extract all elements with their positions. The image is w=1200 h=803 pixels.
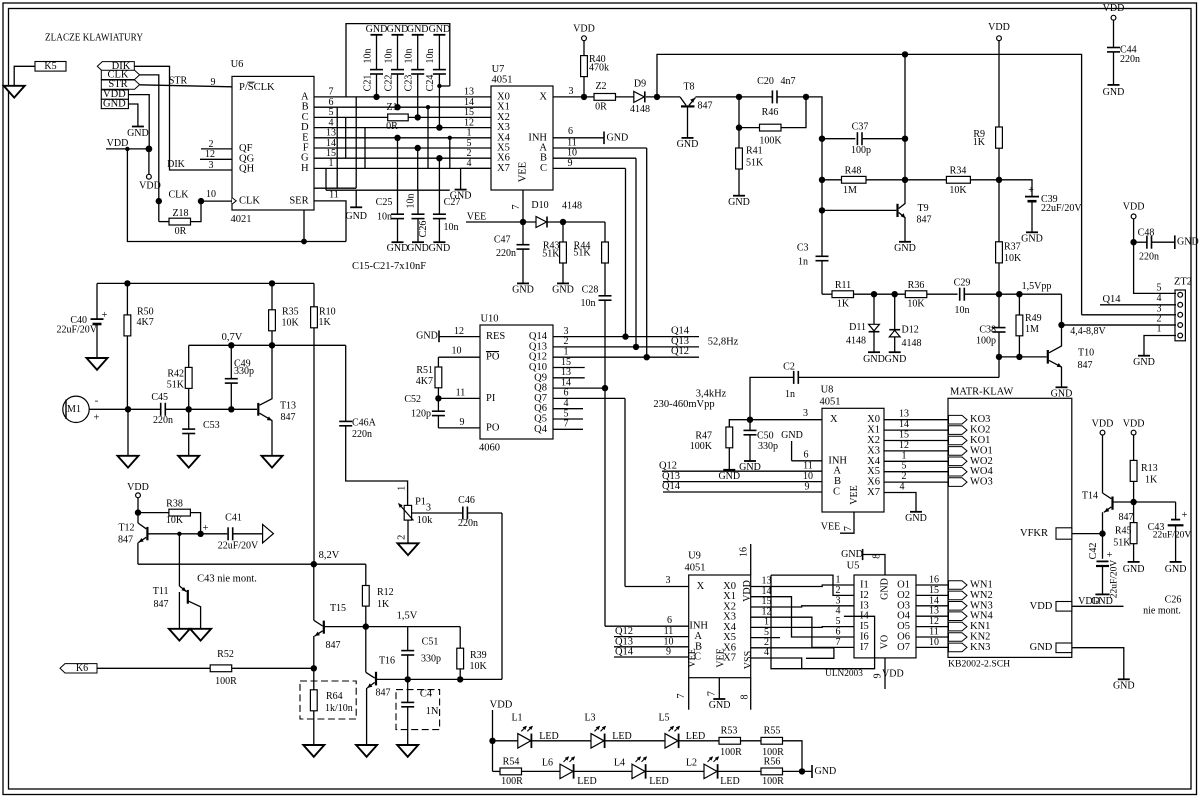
svg-text:X3: X3	[867, 445, 880, 456]
svg-text:1K: 1K	[377, 599, 390, 610]
svg-text:R54: R54	[503, 756, 520, 767]
svg-text:GND: GND	[366, 24, 388, 35]
svg-text:847: 847	[1119, 512, 1134, 523]
svg-text:C3: C3	[797, 243, 809, 254]
svg-text:R13: R13	[1141, 463, 1158, 474]
svg-text:1K: 1K	[319, 317, 332, 328]
svg-text:K6: K6	[76, 663, 88, 674]
svg-text:GND: GND	[1021, 233, 1043, 244]
svg-text:C: C	[833, 487, 840, 498]
svg-text:3: 3	[666, 575, 671, 586]
svg-text:1M: 1M	[1025, 324, 1039, 335]
svg-text:X7: X7	[723, 653, 736, 664]
svg-text:WO3: WO3	[970, 477, 993, 488]
svg-text:GND: GND	[1103, 87, 1125, 98]
svg-text:X7: X7	[867, 487, 880, 498]
svg-text:GND: GND	[905, 513, 927, 524]
svg-text:R35: R35	[282, 307, 299, 318]
svg-text:VDD: VDD	[882, 668, 904, 679]
svg-text:8,2V: 8,2V	[319, 550, 340, 561]
svg-text:4: 4	[467, 158, 472, 169]
svg-text:R37: R37	[1004, 242, 1021, 253]
svg-text:12: 12	[454, 326, 464, 337]
svg-text:Z1: Z1	[386, 102, 397, 113]
svg-text:T11: T11	[153, 586, 169, 597]
svg-text:T16: T16	[379, 655, 395, 666]
svg-text:1: 1	[902, 450, 907, 461]
svg-text:3: 3	[569, 86, 574, 97]
svg-text:5: 5	[902, 461, 907, 472]
svg-text:22uF/20V: 22uF/20V	[1041, 203, 1082, 214]
svg-text:4: 4	[836, 606, 841, 617]
svg-text:X1: X1	[867, 425, 880, 436]
svg-text:GND: GND	[863, 354, 885, 365]
svg-text:10K: 10K	[166, 515, 184, 526]
svg-text:WN1: WN1	[970, 580, 993, 591]
svg-text:U7: U7	[492, 64, 505, 75]
svg-text:Q13: Q13	[662, 471, 680, 482]
svg-text:T14: T14	[1082, 490, 1098, 501]
svg-text:INH: INH	[828, 455, 847, 466]
svg-text:Q14: Q14	[1102, 294, 1121, 305]
svg-text:C48: C48	[1138, 228, 1155, 239]
svg-text:9: 9	[460, 417, 465, 428]
svg-text:U8: U8	[821, 385, 834, 396]
svg-text:4K7: 4K7	[416, 376, 433, 387]
svg-text:11: 11	[329, 190, 339, 201]
svg-text:GND: GND	[387, 24, 409, 35]
svg-text:C21: C21	[362, 75, 373, 92]
svg-text:GND: GND	[1123, 564, 1145, 575]
svg-text:GND: GND	[450, 191, 472, 202]
svg-text:4021: 4021	[231, 214, 252, 225]
svg-text:1,5V: 1,5V	[397, 611, 418, 622]
svg-text:KN2: KN2	[970, 632, 990, 643]
svg-text:GND: GND	[739, 462, 761, 473]
svg-text:GND: GND	[1177, 237, 1199, 248]
svg-text:D12: D12	[902, 325, 919, 336]
svg-text:R47: R47	[695, 431, 712, 442]
svg-text:T8: T8	[683, 81, 694, 92]
svg-text:7: 7	[843, 526, 854, 531]
svg-text:+: +	[94, 412, 100, 423]
svg-text:1,5Vpp: 1,5Vpp	[1022, 281, 1052, 292]
svg-text:U9: U9	[688, 550, 701, 561]
svg-text:C45: C45	[151, 392, 168, 403]
svg-text:100R: 100R	[501, 776, 523, 787]
svg-text:15: 15	[929, 585, 939, 596]
svg-text:GND: GND	[407, 24, 429, 35]
svg-text:A: A	[833, 466, 841, 477]
svg-text:C46: C46	[458, 495, 475, 506]
svg-text:GND: GND	[728, 197, 750, 208]
svg-text:2: 2	[397, 535, 408, 540]
svg-text:10K: 10K	[470, 661, 488, 672]
svg-text:O4: O4	[897, 611, 911, 622]
svg-text:GND: GND	[841, 549, 863, 560]
svg-text:I1: I1	[860, 580, 869, 591]
svg-text:WO2: WO2	[970, 456, 993, 467]
svg-text:T13: T13	[280, 401, 296, 412]
svg-text:9: 9	[568, 158, 573, 169]
svg-text:C26: C26	[1165, 595, 1182, 606]
svg-text:KN1: KN1	[970, 621, 990, 632]
svg-text:T9: T9	[918, 203, 929, 214]
svg-text:GND: GND	[880, 578, 891, 600]
svg-text:X: X	[697, 581, 705, 592]
svg-text:7: 7	[511, 205, 522, 210]
svg-text:WO4: WO4	[970, 466, 993, 477]
svg-text:C2: C2	[783, 362, 795, 373]
svg-text:R51: R51	[416, 365, 433, 376]
svg-text:1K: 1K	[1145, 475, 1158, 486]
svg-text:R10: R10	[319, 306, 336, 317]
svg-text:MATR-KLAW: MATR-KLAW	[950, 386, 1013, 397]
svg-text:100p: 100p	[851, 145, 871, 156]
svg-text:VSS: VSS	[743, 651, 754, 669]
svg-text:R36: R36	[908, 280, 925, 291]
svg-text:22uF/20V: 22uF/20V	[1110, 560, 1120, 599]
svg-text:VEE: VEE	[467, 211, 486, 222]
svg-text:10n: 10n	[406, 194, 417, 209]
svg-text:C43 nie mont.: C43 nie mont.	[197, 573, 257, 584]
svg-text:51K: 51K	[573, 247, 591, 258]
svg-text:470k: 470k	[589, 62, 609, 73]
svg-text:R56: R56	[764, 756, 781, 767]
svg-text:WO1: WO1	[970, 445, 993, 456]
svg-text:10n: 10n	[581, 298, 596, 309]
svg-text:1k/10n: 1k/10n	[325, 703, 353, 714]
svg-text:+: +	[1107, 550, 1113, 561]
svg-text:C20: C20	[757, 76, 774, 87]
svg-text:847: 847	[917, 215, 932, 226]
svg-text:Z2: Z2	[595, 81, 606, 92]
svg-text:I2: I2	[860, 590, 869, 601]
svg-text:100R: 100R	[720, 747, 742, 758]
svg-text:4060: 4060	[479, 442, 500, 453]
svg-text:120p: 120p	[411, 409, 431, 420]
svg-text:3,4kHz: 3,4kHz	[696, 388, 727, 399]
svg-text:KO2: KO2	[970, 425, 990, 436]
svg-text:3: 3	[803, 408, 808, 419]
svg-text:VDD: VDD	[1103, 3, 1125, 14]
svg-text:10K: 10K	[282, 317, 300, 328]
svg-text:10n: 10n	[362, 49, 373, 64]
svg-text:15: 15	[899, 430, 909, 441]
svg-text:7: 7	[706, 691, 717, 696]
svg-text:22uF/20V: 22uF/20V	[218, 541, 259, 552]
svg-text:1M: 1M	[843, 185, 857, 196]
svg-text:22uF/20V: 22uF/20V	[56, 324, 97, 335]
svg-text:X6: X6	[867, 477, 880, 488]
svg-text:GND: GND	[1030, 642, 1053, 653]
svg-text:VDD: VDD	[490, 700, 513, 711]
svg-text:5: 5	[836, 616, 841, 627]
svg-text:DIK: DIK	[167, 159, 186, 170]
svg-text:9: 9	[211, 77, 216, 88]
svg-text:10n: 10n	[955, 305, 970, 316]
svg-text:L2: L2	[686, 757, 697, 768]
svg-text:330p: 330p	[758, 441, 778, 452]
svg-text:51K: 51K	[542, 248, 560, 259]
svg-text:GND: GND	[607, 132, 629, 143]
svg-text:C41: C41	[225, 512, 242, 523]
svg-text:2: 2	[836, 585, 841, 596]
svg-text:WN3: WN3	[970, 600, 993, 611]
svg-text:10K: 10K	[1004, 253, 1022, 264]
svg-text:+: +	[102, 310, 108, 321]
svg-text:QF: QF	[239, 143, 253, 154]
svg-text:220n: 220n	[458, 518, 478, 529]
svg-text:C: C	[540, 163, 547, 174]
svg-text:10: 10	[452, 346, 462, 357]
svg-text:1N: 1N	[426, 706, 439, 717]
svg-text:6: 6	[804, 450, 809, 461]
svg-text:X0: X0	[867, 414, 880, 425]
svg-text:KO1: KO1	[970, 435, 990, 446]
svg-text:LED: LED	[720, 776, 739, 787]
svg-text:22uF/20V: 22uF/20V	[1153, 530, 1192, 540]
svg-text:SER: SER	[289, 195, 308, 206]
svg-text:B: B	[834, 476, 841, 487]
svg-text:10n: 10n	[404, 49, 415, 64]
svg-text:330p: 330p	[234, 366, 254, 377]
svg-text:14: 14	[899, 419, 909, 430]
svg-text:ZLACZE KLAWIATURY: ZLACZE KLAWIATURY	[45, 33, 143, 44]
svg-text:C22: C22	[383, 75, 394, 92]
svg-text:R42: R42	[167, 369, 184, 380]
svg-text:PO: PO	[486, 352, 500, 363]
svg-text:KB2002-2.SCH: KB2002-2.SCH	[948, 659, 1010, 670]
svg-text:16: 16	[929, 575, 939, 586]
svg-text:I6: I6	[860, 632, 869, 643]
svg-text:4148: 4148	[902, 338, 922, 349]
svg-text:C46A: C46A	[352, 418, 377, 429]
svg-text:L4: L4	[614, 757, 625, 768]
svg-text:ZT2: ZT2	[1174, 276, 1192, 287]
svg-text:6: 6	[568, 126, 573, 137]
svg-text:4148: 4148	[562, 201, 582, 212]
svg-text:220n: 220n	[153, 415, 173, 426]
svg-text:3: 3	[209, 160, 214, 171]
svg-text:X: X	[539, 91, 547, 102]
svg-text:12: 12	[899, 440, 909, 451]
svg-text:STR: STR	[169, 76, 188, 87]
svg-text:X5: X5	[867, 466, 880, 477]
svg-text:220n: 220n	[1120, 54, 1140, 65]
svg-text:C23: C23	[404, 75, 415, 92]
svg-text:GND: GND	[677, 139, 699, 150]
svg-text:D10: D10	[531, 200, 548, 211]
svg-text:nie mont.: nie mont.	[1143, 606, 1181, 617]
svg-text:L3: L3	[584, 712, 595, 723]
svg-text:R12: R12	[377, 587, 394, 598]
svg-text:O7: O7	[897, 642, 910, 653]
svg-text:100K: 100K	[759, 135, 782, 146]
svg-text:VEE: VEE	[687, 648, 698, 667]
svg-text:P/SCLK: P/SCLK	[239, 82, 275, 93]
svg-text:0R: 0R	[386, 121, 398, 132]
svg-text:U5: U5	[847, 560, 860, 571]
svg-text:230-460mVpp: 230-460mVpp	[653, 399, 714, 410]
svg-text:Z18: Z18	[172, 208, 188, 219]
svg-text:10: 10	[206, 189, 216, 200]
svg-text:VDD: VDD	[1092, 419, 1114, 430]
svg-text:4,4-8,8V: 4,4-8,8V	[1070, 326, 1106, 337]
svg-text:GND: GND	[429, 24, 451, 35]
svg-text:O2: O2	[897, 590, 910, 601]
svg-text:R41: R41	[746, 146, 763, 157]
svg-text:I5: I5	[860, 621, 869, 632]
svg-text:12: 12	[929, 616, 939, 627]
svg-text:WN4: WN4	[970, 611, 993, 622]
svg-text:847: 847	[281, 412, 296, 423]
svg-text:100K: 100K	[690, 441, 713, 452]
svg-text:T12: T12	[118, 523, 134, 534]
svg-text:51K: 51K	[746, 157, 764, 168]
svg-text:847: 847	[326, 640, 341, 651]
svg-text:1: 1	[396, 486, 407, 491]
svg-text:0,7V: 0,7V	[222, 332, 243, 343]
svg-text:GND: GND	[894, 243, 916, 254]
svg-text:13: 13	[899, 409, 909, 420]
svg-text:220n: 220n	[352, 429, 372, 440]
svg-text:C37: C37	[852, 122, 869, 133]
svg-text:VEE: VEE	[518, 162, 529, 182]
svg-text:T15: T15	[330, 603, 346, 614]
svg-text:0R: 0R	[595, 101, 607, 112]
svg-text:X: X	[830, 414, 838, 425]
svg-text:C42: C42	[1088, 543, 1099, 560]
svg-text:WN2: WN2	[970, 590, 993, 601]
svg-text:1n: 1n	[798, 257, 808, 268]
svg-text:I7: I7	[860, 642, 869, 653]
svg-text:VEE: VEE	[849, 485, 860, 504]
svg-text:847: 847	[1078, 360, 1093, 371]
svg-text:R52: R52	[217, 649, 234, 660]
svg-text:R46: R46	[762, 107, 779, 118]
svg-text:10n: 10n	[377, 212, 392, 223]
svg-text:1: 1	[329, 158, 334, 169]
svg-text:+: +	[1028, 185, 1034, 196]
svg-text:LED: LED	[577, 776, 596, 787]
svg-text:VDD: VDD	[988, 22, 1010, 33]
svg-text:H: H	[301, 163, 309, 174]
svg-text:330p: 330p	[421, 654, 441, 665]
svg-text:GND: GND	[552, 284, 574, 295]
svg-text:R64: R64	[326, 691, 343, 702]
svg-text:VFKR: VFKR	[1020, 528, 1048, 539]
svg-text:Q14: Q14	[662, 481, 681, 492]
svg-text:PI: PI	[486, 393, 496, 404]
svg-text:C15-C21-7x10nF: C15-C21-7x10nF	[352, 261, 426, 272]
svg-text:220n: 220n	[496, 248, 516, 259]
svg-text:847: 847	[698, 101, 713, 112]
svg-text:VDD: VDD	[127, 482, 149, 493]
svg-text:GND: GND	[429, 243, 451, 254]
svg-text:CLK: CLK	[239, 195, 260, 206]
svg-text:VDD: VDD	[1123, 419, 1145, 430]
svg-text:X7: X7	[497, 163, 510, 174]
svg-text:INH: INH	[689, 621, 708, 632]
svg-text:7: 7	[836, 637, 841, 648]
svg-text:Q12: Q12	[671, 346, 689, 357]
svg-text:12: 12	[205, 149, 215, 160]
svg-text:2: 2	[902, 471, 907, 482]
svg-text:10n: 10n	[425, 49, 436, 64]
svg-text:I4: I4	[860, 611, 869, 622]
svg-text:C24: C24	[425, 75, 436, 92]
svg-text:13: 13	[929, 606, 939, 617]
svg-text:GND: GND	[407, 243, 429, 254]
svg-text:52,8Hz: 52,8Hz	[708, 337, 739, 348]
svg-text:14: 14	[929, 595, 939, 606]
svg-text:1K: 1K	[973, 137, 986, 148]
svg-text:4: 4	[764, 647, 769, 658]
svg-text:D11: D11	[849, 322, 866, 333]
svg-text:C51: C51	[422, 637, 439, 648]
svg-text:VDD: VDD	[742, 580, 753, 602]
svg-text:VDD: VDD	[1030, 601, 1053, 612]
svg-text:100p: 100p	[976, 336, 996, 347]
svg-text:GND: GND	[127, 128, 149, 139]
svg-text:220n: 220n	[1139, 252, 1159, 263]
svg-text:X4: X4	[867, 456, 881, 467]
svg-text:9: 9	[805, 481, 810, 492]
svg-text:10n: 10n	[383, 49, 394, 64]
svg-text:GND: GND	[103, 99, 126, 110]
svg-text:P1: P1	[415, 497, 426, 508]
svg-text:Q12: Q12	[659, 460, 677, 471]
svg-text:8: 8	[740, 695, 751, 700]
svg-text:GND: GND	[781, 430, 803, 441]
svg-text:U10: U10	[480, 313, 498, 324]
svg-text:R11: R11	[835, 280, 851, 291]
svg-text:-: -	[95, 394, 99, 406]
svg-text:T10: T10	[1078, 348, 1094, 359]
svg-text:D9: D9	[634, 78, 646, 89]
svg-text:4K7: 4K7	[137, 317, 154, 328]
svg-text:ULN2003: ULN2003	[825, 669, 863, 679]
svg-text:C47: C47	[494, 235, 511, 246]
svg-text:51K: 51K	[1113, 538, 1131, 549]
svg-text:VDD: VDD	[573, 23, 595, 34]
svg-text:O1: O1	[897, 580, 910, 591]
svg-text:4051: 4051	[685, 562, 706, 573]
svg-text:Q14: Q14	[615, 647, 634, 658]
svg-text:Q4: Q4	[534, 424, 548, 435]
svg-text:11: 11	[803, 461, 813, 472]
svg-text:GND: GND	[512, 285, 534, 296]
svg-text:4: 4	[900, 482, 905, 493]
svg-text:U6: U6	[231, 59, 244, 70]
svg-text:5: 5	[1157, 283, 1162, 294]
svg-text:L1: L1	[511, 712, 522, 723]
svg-text:6: 6	[667, 615, 672, 626]
svg-text:R49: R49	[1025, 313, 1042, 324]
svg-text:VDD: VDD	[1123, 202, 1145, 213]
svg-text:K5: K5	[44, 61, 56, 72]
svg-text:R55: R55	[764, 725, 781, 736]
svg-text:C29: C29	[954, 278, 971, 289]
svg-text:LED: LED	[649, 776, 668, 787]
svg-text:11: 11	[929, 627, 939, 638]
svg-text:GND: GND	[345, 211, 367, 222]
svg-text:10k: 10k	[417, 515, 434, 526]
svg-text:R38: R38	[166, 498, 183, 509]
svg-text:4148: 4148	[846, 335, 866, 346]
svg-text:GND: GND	[885, 354, 907, 365]
